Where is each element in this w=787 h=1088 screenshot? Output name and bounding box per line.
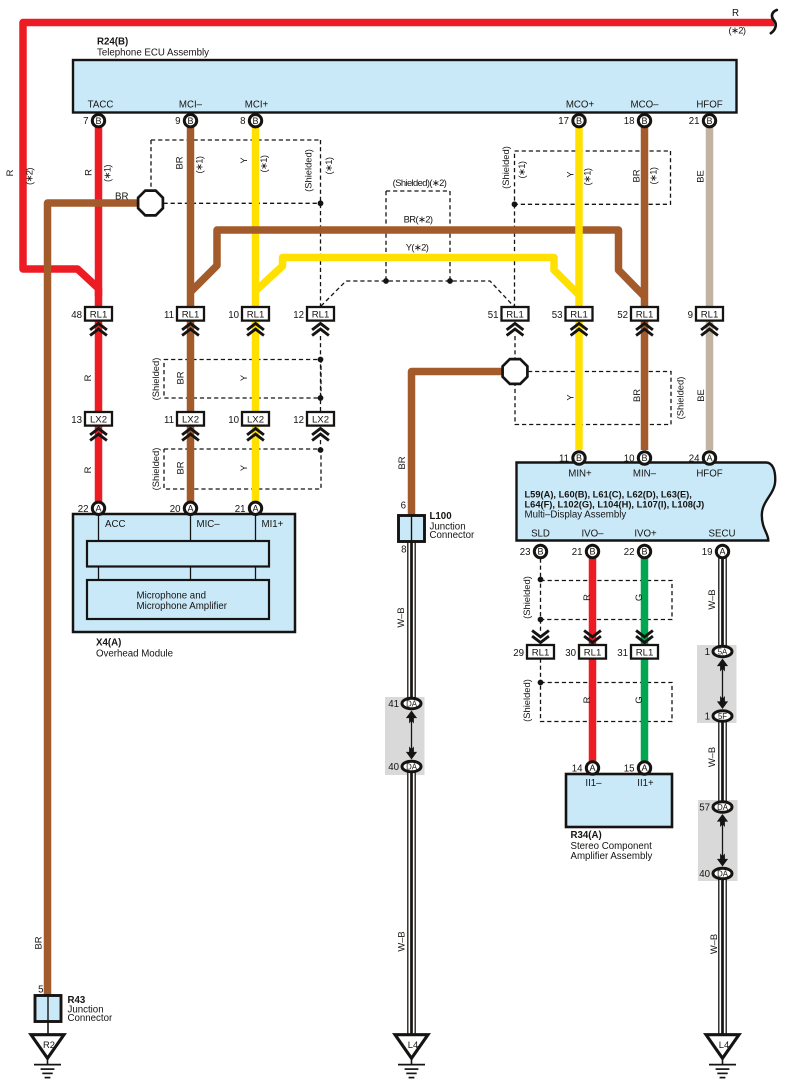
shield drain line node 12 upper	[320, 140, 322, 307]
svg-text:L59(A), L60(B), L61(C), L62(D): L59(A), L60(B), L61(C), L62(D), L63(E),	[525, 489, 692, 499]
svg-text:9: 9	[688, 310, 693, 321]
svg-text:BE: BE	[695, 170, 706, 183]
connector 41 DA	[402, 698, 421, 709]
svg-text:BR: BR	[175, 371, 186, 384]
junction dot on shield drain 51	[512, 201, 518, 207]
pin 21 B HFOF	[703, 115, 715, 127]
svg-text:RL1: RL1	[584, 648, 602, 659]
ground R2	[31, 1035, 64, 1059]
svg-text:21: 21	[572, 547, 583, 558]
svg-text:Y: Y	[238, 464, 249, 471]
svg-text:R: R	[581, 696, 592, 703]
pin 22 B IVO+	[638, 545, 650, 557]
svg-text:48: 48	[71, 310, 82, 321]
connector node IVO+ RL1	[636, 631, 653, 637]
wire Y(*2) bus between MCI+ and MCO+	[256, 258, 580, 296]
svg-text:L64(F), L102(G), L104(H), L107: L64(F), L102(G), L104(H), L107(I), L108(…	[525, 500, 705, 510]
junction octagon on BR shield bus	[138, 191, 163, 216]
svg-text:BR: BR	[175, 461, 186, 474]
svg-text:24: 24	[689, 454, 700, 465]
svg-text:MIN+: MIN+	[568, 469, 592, 480]
connector block 57DA-40DA background	[698, 800, 738, 881]
svg-text:(Shielded)(∗2): (Shielded)(∗2)	[393, 177, 447, 188]
connector 40 DA	[402, 761, 421, 772]
connector node TACC LX2	[85, 412, 112, 426]
shield box below LX2 row	[164, 449, 321, 489]
svg-text:MCO+: MCO+	[566, 99, 595, 110]
svg-text:LX2: LX2	[312, 415, 329, 426]
svg-text:W–B: W–B	[706, 747, 717, 767]
svg-text:11: 11	[559, 454, 569, 465]
pin 17 B MCO+	[573, 115, 585, 127]
svg-text:DA: DA	[717, 803, 729, 812]
svg-text:BR: BR	[630, 169, 641, 182]
svg-text:8: 8	[240, 116, 245, 127]
svg-text:W–B: W–B	[706, 589, 717, 609]
svg-text:A: A	[641, 763, 647, 773]
svg-text:B: B	[641, 116, 647, 126]
SLD line to connector 29	[540, 620, 542, 632]
svg-text:BR: BR	[396, 456, 407, 469]
svg-text:11: 11	[164, 415, 174, 426]
svg-text:A: A	[252, 504, 258, 514]
connector node shield RL1	[307, 307, 334, 321]
connector 1 5F	[713, 711, 732, 722]
svg-text:RL1: RL1	[701, 310, 719, 321]
svg-text:A: A	[589, 763, 595, 773]
connector node MCI- LX2	[177, 412, 204, 426]
svg-text:51: 51	[488, 310, 499, 321]
junction dot SLD	[538, 617, 544, 623]
svg-text:B: B	[537, 547, 543, 557]
svg-text:A: A	[187, 504, 193, 514]
connector node TACC RL1	[85, 307, 112, 321]
svg-text:BE: BE	[695, 389, 706, 402]
pin 21 B IVO-	[586, 545, 598, 557]
svg-text:A: A	[719, 547, 725, 557]
mating arrows 57DA-40DA	[722, 818, 724, 861]
pin 21 A MI1+	[249, 502, 261, 514]
pin 7 B TACC	[92, 115, 104, 127]
svg-text:R: R	[732, 8, 739, 19]
shield box around MIN wires (Shielded)	[515, 372, 671, 425]
svg-text:R: R	[82, 466, 93, 473]
svg-text:B: B	[641, 547, 647, 557]
svg-text:Connector: Connector	[430, 530, 475, 541]
SLD shield line from pin 23	[540, 559, 542, 580]
connector block 1-5A/1-5F background	[697, 645, 737, 723]
svg-text:57: 57	[699, 802, 710, 813]
svg-text:7: 7	[83, 116, 88, 127]
svg-text:Overhead Module: Overhead Module	[96, 649, 173, 660]
wire R from IVO- pin 21 to II1- pin 14	[589, 558, 597, 762]
svg-text:41: 41	[388, 699, 399, 710]
svg-text:RL1: RL1	[636, 310, 654, 321]
shield bus line between connectors 12 and 51	[321, 281, 514, 306]
svg-text:(∗1): (∗1)	[323, 157, 334, 174]
wire break squiggle at top right	[771, 10, 777, 33]
svg-text:IVO+: IVO+	[634, 529, 657, 540]
svg-text:17: 17	[558, 116, 569, 127]
svg-text:G: G	[633, 696, 644, 703]
pin 20 A MIC-	[184, 502, 196, 514]
svg-text:BR: BR	[115, 191, 128, 202]
svg-text:(Shielded): (Shielded)	[521, 576, 532, 619]
svg-text:R: R	[581, 594, 592, 601]
connector 1 5A	[713, 646, 732, 657]
svg-text:19: 19	[702, 547, 713, 558]
connector node shield 51 RL1	[502, 307, 529, 321]
svg-text:W–B: W–B	[396, 931, 407, 951]
svg-text:MIN–: MIN–	[633, 469, 657, 480]
svg-text:Microphone Amplifier: Microphone Amplifier	[137, 601, 228, 612]
connector node MCI+ RL1	[242, 307, 269, 321]
svg-text:RL1: RL1	[636, 648, 654, 659]
svg-text:(Shielded): (Shielded)	[150, 358, 161, 401]
svg-text:(∗1): (∗1)	[194, 156, 205, 173]
svg-text:(Shielded): (Shielded)	[521, 679, 532, 722]
svg-text:(Shielded): (Shielded)	[303, 149, 314, 192]
pin 23 B SLD	[534, 545, 546, 557]
SLD line connector 29 to lower shield box	[540, 659, 542, 683]
mating arrows 5A-5F	[722, 663, 724, 704]
svg-text:40: 40	[699, 869, 710, 880]
svg-text:B: B	[576, 453, 582, 463]
junction octagon on BR wire to L100	[503, 359, 528, 384]
svg-text:A: A	[706, 453, 712, 463]
wire G from IVO+ pin 22 to II1+ pin 15	[641, 558, 649, 762]
svg-text:12: 12	[293, 310, 304, 321]
svg-text:RL1: RL1	[182, 310, 200, 321]
shield segment 12 RL1 to LX2 with shield box (RL1-LX2)	[320, 336, 322, 412]
svg-text:LX2: LX2	[247, 415, 264, 426]
connector node MCI+ LX2	[242, 412, 269, 426]
junction dot SLD upper	[538, 577, 544, 583]
svg-text:5A: 5A	[718, 647, 728, 656]
svg-text:Multi–Display Assembly: Multi–Display Assembly	[525, 509, 627, 520]
svg-text:G: G	[633, 594, 644, 601]
ground L4 right	[706, 1035, 739, 1059]
svg-text:B: B	[641, 453, 647, 463]
ground L4 center	[395, 1035, 428, 1059]
svg-text:40: 40	[388, 762, 399, 773]
svg-text:Connector: Connector	[68, 1013, 113, 1024]
svg-text:(Shielded): (Shielded)	[675, 377, 686, 420]
svg-text:Microphone and: Microphone and	[137, 590, 206, 601]
wire Y from MCO+ pin 17 to MIN+	[575, 126, 583, 450]
svg-text:(∗1): (∗1)	[648, 167, 659, 184]
X4(A) Overhead Module box	[73, 514, 295, 632]
svg-text:5: 5	[38, 985, 43, 996]
connector node HFOF RL1	[696, 307, 723, 321]
junction dot on shield drain 12	[318, 200, 324, 206]
svg-text:Y: Y	[238, 374, 249, 381]
svg-text:SECU: SECU	[709, 529, 736, 540]
pin 8 B MCI+	[249, 115, 261, 127]
pin 18 B MCO-	[638, 115, 650, 127]
svg-text:52: 52	[617, 310, 628, 321]
svg-text:DA: DA	[717, 869, 729, 878]
wire W-B from connector 40DA to ground L4 right	[718, 879, 726, 1035]
svg-text:10: 10	[228, 415, 239, 426]
shield drain 51 RL1 to junction octagon	[514, 336, 516, 358]
ECU box R24(B) Telephone ECU Assembly	[73, 60, 737, 113]
svg-text:(∗2): (∗2)	[24, 168, 35, 185]
pin 10 B MIN-	[638, 452, 650, 464]
junction dot on shield line 12 lower	[318, 447, 324, 453]
svg-text:R2: R2	[43, 1039, 55, 1050]
wire R from TACC pin 7 to connectors RL1/LX2 and ACC	[95, 126, 103, 502]
wire BR from MCI- pin 9	[187, 126, 195, 502]
pin 9 B MCI-	[184, 115, 196, 127]
svg-text:23: 23	[520, 547, 531, 558]
inner block of overhead module	[87, 541, 269, 567]
svg-text:LX2: LX2	[90, 415, 107, 426]
connector block 41DA-40DA background	[385, 697, 425, 775]
svg-text:6: 6	[401, 501, 406, 512]
svg-text:IVO–: IVO–	[581, 529, 604, 540]
svg-text:11: 11	[164, 310, 174, 321]
svg-text:RL1: RL1	[570, 310, 588, 321]
svg-text:1: 1	[705, 647, 710, 658]
svg-text:BR: BR	[631, 389, 642, 402]
svg-text:22: 22	[78, 504, 89, 515]
Multi-Display Assembly box	[517, 463, 776, 541]
svg-text:12: 12	[293, 415, 304, 426]
svg-text:II1+: II1+	[637, 778, 654, 789]
svg-text:B: B	[95, 116, 101, 126]
mating arrows 41DA-40DA	[411, 715, 413, 755]
svg-text:(Shielded): (Shielded)	[150, 448, 161, 491]
svg-text:8: 8	[401, 545, 406, 556]
svg-text:SLD: SLD	[531, 529, 550, 540]
internal leads of overhead module	[98, 514, 100, 580]
wire Y from MCI+ pin 8	[252, 126, 260, 502]
svg-text:21: 21	[689, 116, 700, 127]
wire BR from MCO- pin 18 to MIN-	[641, 126, 649, 450]
wire BR(*2) bus between MCI- and MCO-	[191, 230, 645, 297]
connector node MCO+ RL1	[566, 307, 593, 321]
R34(A) Stereo Component Amplifier Assembly box	[566, 774, 672, 827]
pin 19 A SECU	[716, 545, 728, 557]
connector 40 DA lower	[713, 868, 732, 879]
svg-text:Y: Y	[565, 171, 576, 178]
svg-text:29: 29	[513, 648, 524, 659]
svg-text:DA: DA	[406, 699, 418, 708]
shield box around MCO wires (Shielded)(*1)	[515, 151, 671, 204]
lead from R43 to ground R2	[47, 1022, 49, 1036]
svg-text:R34(A): R34(A)	[571, 830, 602, 841]
svg-text:II1–: II1–	[585, 778, 602, 789]
svg-text:R: R	[83, 169, 94, 176]
svg-text:Y(∗2): Y(∗2)	[406, 241, 429, 252]
svg-text:B: B	[706, 116, 712, 126]
connector node MCO- RL1	[631, 307, 658, 321]
svg-text:(Shielded): (Shielded)	[500, 146, 511, 189]
svg-text:B: B	[576, 116, 582, 126]
svg-text:10: 10	[228, 310, 239, 321]
svg-text:L4: L4	[408, 1039, 418, 1050]
svg-text:1: 1	[705, 711, 710, 722]
wire W-B from connector 5F to connector 57DA	[718, 722, 726, 802]
junction dots on shared shield bus	[383, 278, 389, 284]
connector 57 DA	[713, 802, 732, 813]
svg-text:21: 21	[235, 504, 246, 515]
svg-text:R: R	[82, 374, 93, 381]
svg-text:31: 31	[617, 648, 628, 659]
svg-text:MCI–: MCI–	[179, 99, 203, 110]
svg-text:HFOF: HFOF	[696, 99, 722, 110]
svg-text:L100: L100	[430, 511, 452, 522]
svg-text:(∗1): (∗1)	[516, 161, 527, 178]
R43 junction connector	[35, 996, 61, 1022]
svg-text:W–B: W–B	[708, 934, 719, 954]
svg-text:13: 13	[71, 415, 82, 426]
pin 22 A ACC	[92, 502, 104, 514]
wire R (*2) power feed from top right	[23, 23, 774, 297]
wire BE from HFOF pin 21 to HFOF pin 24	[706, 126, 714, 450]
svg-text:RL1: RL1	[532, 648, 550, 659]
svg-text:L4: L4	[719, 1039, 729, 1050]
svg-text:20: 20	[170, 504, 181, 515]
svg-text:MCI+: MCI+	[245, 99, 269, 110]
svg-text:Amplifier Assembly: Amplifier Assembly	[571, 851, 653, 862]
connector node SLD RL1	[532, 631, 549, 637]
microphone amplifier block	[87, 580, 269, 619]
svg-text:A: A	[95, 504, 101, 514]
wire BR from junction octagon to L100 junction connector	[412, 372, 505, 517]
svg-text:53: 53	[552, 310, 563, 321]
shield box between RL1 and LX2 rows	[164, 360, 321, 399]
svg-text:RL1: RL1	[247, 310, 265, 321]
wire BR from junction octagon to R43 junction connector	[48, 203, 141, 996]
svg-text:(∗2): (∗2)	[729, 25, 746, 36]
svg-text:15: 15	[624, 764, 635, 775]
svg-text:14: 14	[572, 764, 583, 775]
svg-text:R: R	[4, 169, 15, 176]
svg-text:5F: 5F	[718, 712, 727, 721]
svg-text:LX2: LX2	[182, 415, 199, 426]
shield box (Shielded)(*2) around bus wires	[386, 190, 450, 192]
svg-text:30: 30	[565, 648, 576, 659]
svg-text:B: B	[589, 547, 595, 557]
svg-text:BR(∗2): BR(∗2)	[404, 213, 433, 224]
junction dots on shield line 12 middle	[318, 357, 324, 363]
shield box around IVO wires lower	[541, 683, 673, 722]
connector node MCI- RL1	[177, 307, 204, 321]
svg-text:(∗1): (∗1)	[258, 155, 269, 172]
wire W-B from connector 40DA to ground L4	[407, 772, 415, 1035]
shield box around IVO wires upper	[541, 581, 673, 620]
svg-text:X4(A): X4(A)	[96, 638, 121, 649]
svg-text:W–B: W–B	[395, 607, 406, 627]
svg-text:BR: BR	[33, 936, 44, 949]
svg-text:RL1: RL1	[90, 310, 108, 321]
pin 14 A II1-	[586, 762, 598, 774]
svg-text:R24(B): R24(B)	[97, 37, 128, 48]
svg-text:Telephone ECU Assembly: Telephone ECU Assembly	[97, 48, 209, 59]
svg-text:RL1: RL1	[506, 310, 524, 321]
svg-text:HFOF: HFOF	[696, 469, 722, 480]
svg-text:22: 22	[624, 547, 635, 558]
shield box around MCI wires (Shielded)(*1)	[151, 139, 321, 141]
wire W-B from SECU pin 19 to connector 5A	[718, 558, 726, 646]
svg-text:TACC: TACC	[88, 99, 114, 110]
svg-text:RL1: RL1	[312, 310, 330, 321]
connector node IVO- RL1	[584, 631, 601, 637]
pin 11 B MIN+	[573, 452, 585, 464]
svg-text:ACC: ACC	[105, 519, 125, 530]
junction dot SLD lower	[538, 680, 544, 686]
svg-text:BR: BR	[174, 156, 185, 169]
L100 junction connector	[399, 516, 425, 542]
svg-text:Y: Y	[565, 394, 576, 401]
svg-text:9: 9	[175, 116, 180, 127]
svg-text:18: 18	[624, 116, 635, 127]
svg-text:DA: DA	[406, 762, 418, 771]
svg-text:MI1+: MI1+	[262, 519, 284, 530]
wire W-B from L100 to connector 41DA	[407, 543, 415, 699]
connector node shield LX2	[307, 412, 334, 426]
svg-text:(∗1): (∗1)	[102, 165, 113, 182]
svg-text:B: B	[187, 116, 193, 126]
svg-text:(∗1): (∗1)	[582, 168, 593, 185]
svg-text:10: 10	[624, 454, 635, 465]
svg-text:Y: Y	[238, 157, 249, 164]
svg-text:B: B	[252, 116, 258, 126]
shield drain line node 51 upper	[514, 204, 516, 307]
pin 24 A HFOF	[703, 452, 715, 464]
svg-text:MCO–: MCO–	[631, 99, 660, 110]
svg-text:MIC–: MIC–	[197, 519, 221, 530]
shield segment below 12 LX2	[320, 440, 322, 450]
pin 15 A II1+	[638, 762, 650, 774]
